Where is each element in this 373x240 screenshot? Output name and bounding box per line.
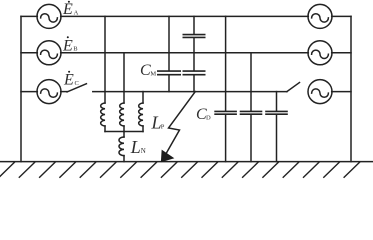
capacitor C_D phase C line to ground bbox=[276, 115, 278, 162]
source E_A left circle bbox=[37, 4, 61, 28]
source right phase B bbox=[308, 41, 332, 65]
svg-text:C: C bbox=[75, 80, 79, 87]
svg-text:M: M bbox=[150, 70, 156, 77]
wire bus A bbox=[61, 15, 309, 17]
wire bus B bbox=[61, 52, 309, 54]
capacitor C_D phase B line to ground bbox=[250, 115, 252, 162]
svg-text:B: B bbox=[73, 46, 78, 53]
capacitor C_D phase B line upper segment bbox=[250, 53, 252, 111]
capacitor C_M phase A-C line upper segment bbox=[168, 16, 170, 70]
fault arc arrow to ground bbox=[167, 92, 196, 153]
inductor L_P phase C coil bbox=[139, 103, 143, 126]
wire bus B left stub bbox=[21, 52, 37, 54]
wire bus C bbox=[93, 91, 287, 93]
capacitor C_D phase A bbox=[215, 111, 236, 114]
wire phase B feed to reactor bbox=[123, 53, 125, 103]
capacitor C_D phase A line to ground bbox=[225, 115, 227, 162]
wire between C_M capacitors bbox=[193, 38, 195, 71]
capacitor C_D phase C bbox=[266, 111, 287, 114]
svg-text:P: P bbox=[161, 123, 165, 130]
ground line bbox=[0, 161, 373, 163]
switch right phase C bbox=[287, 83, 300, 92]
svg-text:E: E bbox=[62, 1, 73, 18]
source E_B left circle bbox=[37, 41, 61, 65]
ground hatching bbox=[0, 162, 360, 178]
inductor L_P phase B coil bbox=[120, 103, 124, 126]
capacitor C_D phase C line upper segment bbox=[276, 92, 278, 111]
capacitor C_M phase B-C line lower segment bbox=[193, 75, 195, 91]
wire phase A feed to reactor bbox=[104, 16, 106, 103]
wire bus A left stub bbox=[21, 15, 37, 17]
svg-text:E: E bbox=[63, 72, 74, 89]
capacitor C_D phase B bbox=[241, 111, 262, 114]
svg-text:D: D bbox=[206, 115, 211, 122]
wire phase C feed to reactor bbox=[142, 92, 144, 103]
svg-text:L: L bbox=[130, 137, 141, 157]
capacitor C_M phase A-C line lower segment bbox=[168, 75, 170, 91]
label C_D bbox=[196, 106, 211, 123]
label L_P bbox=[151, 112, 165, 132]
wire bus C right stub bbox=[332, 91, 351, 93]
wire bus A right stub bbox=[332, 15, 351, 17]
inductor L_N neutral coil bbox=[123, 132, 125, 138]
wire bus B right stub bbox=[332, 52, 351, 54]
svg-text:A: A bbox=[74, 9, 79, 16]
label E_C bbox=[63, 71, 79, 89]
wire left vertical bus bbox=[20, 16, 22, 161]
wire right vertical bus bbox=[350, 16, 352, 161]
source E_C left circle bbox=[37, 80, 61, 104]
label L_N bbox=[130, 137, 146, 157]
inductor L_P phase A coil bbox=[101, 103, 105, 126]
svg-text:N: N bbox=[141, 147, 146, 155]
capacitor C_M A-C bbox=[158, 71, 180, 75]
switch left phase C bbox=[61, 91, 67, 93]
capacitor C_M phase A-B line upper segment bbox=[193, 16, 195, 34]
source right phase C bbox=[308, 80, 332, 104]
capacitor C_M A-B bbox=[183, 35, 204, 38]
label C_M bbox=[140, 62, 156, 79]
wire bus C left stub bbox=[21, 91, 37, 93]
fault arrowhead bbox=[161, 151, 173, 162]
label E_B bbox=[62, 36, 78, 54]
label E_A bbox=[62, 1, 79, 18]
wire reactor neutral bar bbox=[105, 131, 143, 133]
capacitor C_M B-C bbox=[183, 71, 204, 75]
capacitor C_D phase A line upper segment bbox=[225, 16, 227, 110]
svg-text:C: C bbox=[140, 62, 151, 79]
svg-text:E: E bbox=[62, 37, 73, 54]
wire neutral to ground bbox=[123, 156, 125, 162]
source right phase A bbox=[308, 4, 332, 28]
